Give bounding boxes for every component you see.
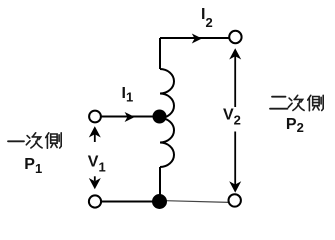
svg-text:V1: V1 — [88, 153, 106, 174]
svg-text:I2: I2 — [201, 6, 213, 30]
svg-text:P1: P1 — [24, 156, 42, 176]
svg-text:I1: I1 — [122, 85, 134, 105]
svg-text:V2: V2 — [223, 106, 241, 127]
svg-text:P2: P2 — [286, 116, 304, 135]
